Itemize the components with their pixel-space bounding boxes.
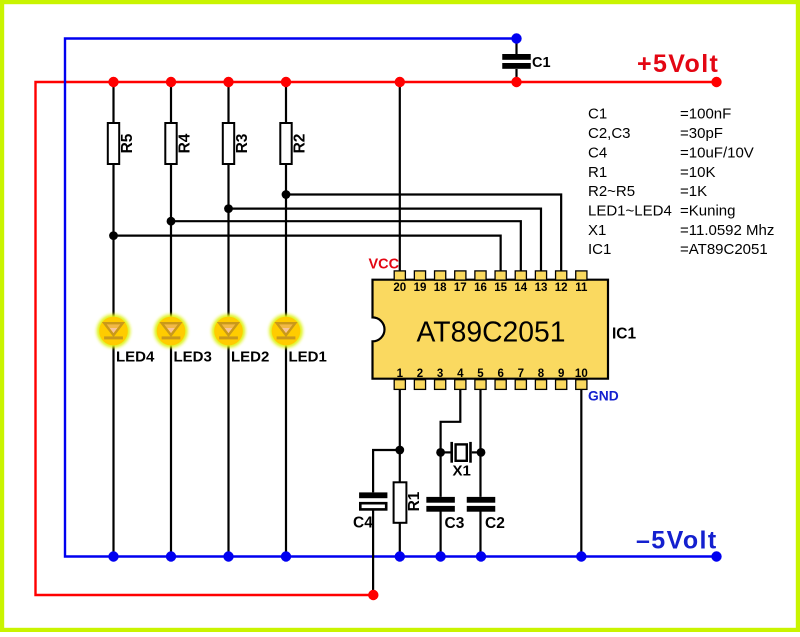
svg-text:C1: C1 (588, 106, 607, 123)
svg-text:C1: C1 (532, 55, 551, 71)
svg-text:VCC: VCC (369, 257, 400, 273)
svg-text:X1: X1 (588, 222, 606, 239)
svg-text:R2: R2 (291, 134, 308, 154)
svg-text:20: 20 (393, 282, 406, 294)
svg-text:R1: R1 (588, 164, 607, 181)
svg-text:LED1: LED1 (289, 349, 327, 366)
svg-text:C2: C2 (485, 515, 505, 532)
svg-text:19: 19 (414, 282, 427, 294)
svg-text:–5Volt: –5Volt (636, 527, 718, 555)
svg-text:X1: X1 (453, 463, 471, 480)
svg-text:AT89C2051: AT89C2051 (417, 316, 566, 348)
svg-text:R5: R5 (119, 133, 136, 153)
svg-text:LED4: LED4 (116, 349, 155, 366)
svg-text:C3: C3 (445, 515, 465, 532)
svg-text:R3: R3 (234, 133, 251, 153)
svg-text:=30pF: =30pF (680, 125, 723, 142)
svg-text:LED1~LED4: LED1~LED4 (588, 202, 672, 219)
svg-text:13: 13 (535, 282, 548, 294)
svg-text:LED2: LED2 (231, 349, 269, 366)
svg-text:16: 16 (474, 282, 487, 294)
svg-text:1: 1 (397, 368, 404, 380)
svg-text:+5Volt: +5Volt (637, 50, 719, 78)
svg-text:5: 5 (477, 368, 484, 380)
svg-text:18: 18 (434, 282, 447, 294)
svg-text:8: 8 (538, 368, 545, 380)
svg-text:GND: GND (588, 389, 619, 404)
svg-text:3: 3 (437, 368, 443, 380)
svg-text:C2,C3: C2,C3 (588, 125, 631, 142)
svg-text:14: 14 (514, 282, 527, 294)
svg-text:=10K: =10K (680, 164, 715, 181)
svg-text:=Kuning: =Kuning (680, 202, 735, 219)
svg-text:7: 7 (518, 368, 524, 380)
svg-text:IC1: IC1 (588, 241, 611, 258)
svg-text:4: 4 (457, 368, 464, 380)
svg-text:2: 2 (417, 368, 423, 380)
svg-text:17: 17 (454, 282, 467, 294)
svg-text:=11.0592 Mhz: =11.0592 Mhz (680, 222, 774, 239)
svg-text:LED3: LED3 (174, 349, 212, 366)
svg-text:12: 12 (555, 282, 568, 294)
svg-text:R2~R5: R2~R5 (588, 183, 635, 200)
svg-text:9: 9 (558, 368, 564, 380)
svg-text:=10uF/10V: =10uF/10V (680, 144, 754, 161)
svg-text:11: 11 (575, 282, 588, 294)
svg-text:=1K: =1K (680, 183, 707, 200)
svg-text:=AT89C2051: =AT89C2051 (680, 241, 768, 258)
svg-text:R4: R4 (176, 133, 193, 153)
svg-text:=100nF: =100nF (680, 106, 731, 123)
svg-text:15: 15 (494, 282, 507, 294)
svg-text:6: 6 (497, 368, 503, 380)
svg-text:R1: R1 (406, 491, 423, 511)
svg-text:C4: C4 (588, 144, 607, 161)
svg-text:C4: C4 (353, 515, 373, 532)
svg-text:10: 10 (575, 368, 588, 380)
svg-text:IC1: IC1 (612, 326, 637, 343)
